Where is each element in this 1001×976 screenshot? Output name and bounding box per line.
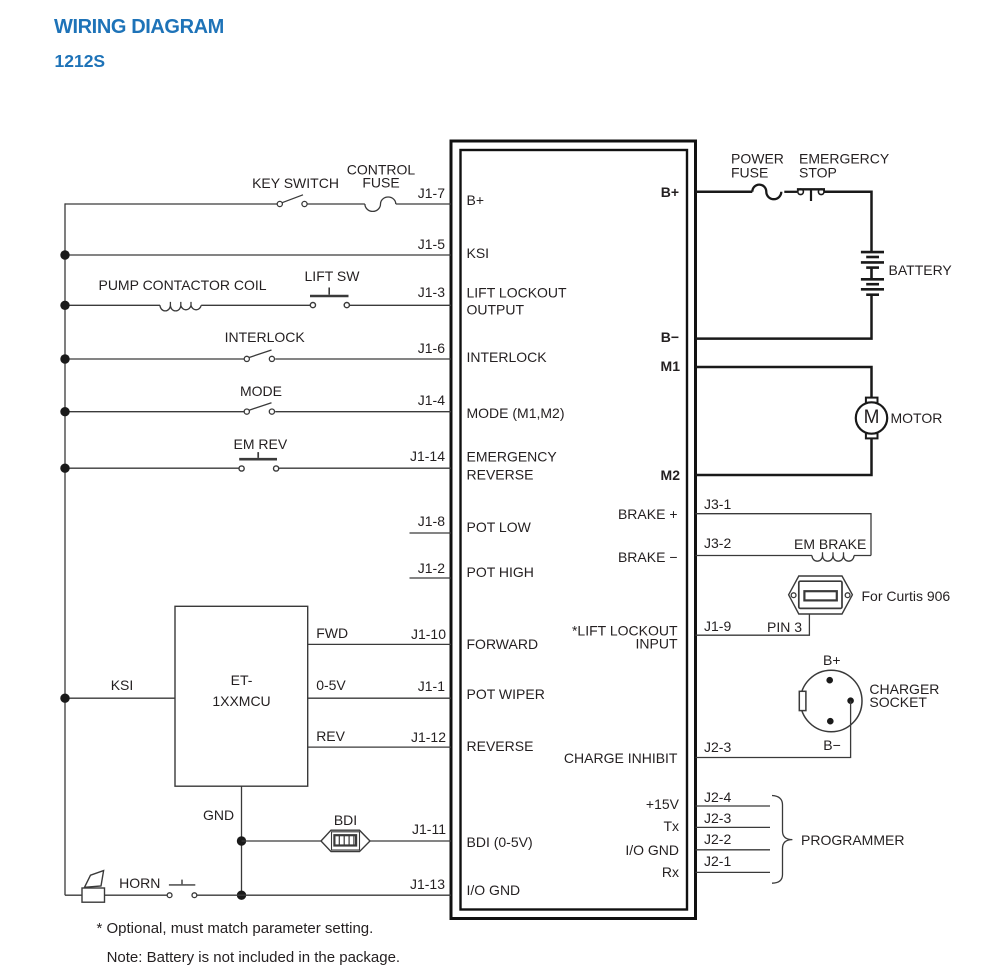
motor M — [856, 398, 887, 439]
power fuse — [752, 185, 781, 200]
footnote battery note — [107, 951, 401, 965]
wire J2-3 / CHARGE INHIBIT : charger pin to box — [696, 701, 851, 758]
battery — [861, 252, 884, 295]
pin label J1-11 — [412, 822, 446, 836]
charger label B- — [823, 738, 841, 752]
pin label J1-9 — [704, 619, 731, 633]
horn — [82, 871, 105, 903]
wire: horn pushbutton to J1-13 — [197, 894, 451, 896]
wire J1-7 row: bus to key switch — [65, 203, 277, 205]
charger socket — [799, 670, 862, 732]
box label BRAKE - — [618, 550, 678, 564]
label POWER FUSE — [731, 151, 784, 180]
lift switch SW (pushbutton) — [310, 288, 349, 308]
wire: power fuse to emergency stop — [784, 191, 797, 193]
wire J2-3 programmer — [696, 826, 771, 828]
wire J3-2 / BRAKE- : box to em brake coil — [696, 555, 813, 557]
junction dot bus/J1-3 — [60, 301, 69, 310]
BDI meter symbol — [321, 830, 370, 851]
wire: interlock switch to J1-6 — [275, 358, 451, 360]
pin label J3-1 — [704, 497, 731, 511]
wire: lift switch to J1-3 — [350, 304, 452, 306]
pin label J2-3 — [704, 740, 731, 754]
horn pushbutton — [167, 880, 197, 898]
box label M1 (bold) — [661, 359, 680, 373]
label HORN — [119, 876, 160, 890]
pin label J1-10 — [411, 627, 446, 641]
wire GND vertical from throttle box — [241, 786, 243, 895]
box label MODE (M1,M2) — [467, 406, 565, 420]
wire REV to J1-12 — [308, 746, 451, 748]
wire: mode switch to J1-4 — [275, 411, 451, 413]
interlock switch — [244, 350, 274, 362]
box label M2 (bold) — [661, 468, 680, 482]
label EM REV — [234, 437, 288, 451]
pin label J3-2 — [704, 536, 731, 550]
charger socket pin center — [847, 697, 854, 704]
throttle label ET-1XXMCU — [212, 670, 270, 712]
wire KSI: bus to throttle box — [65, 697, 175, 699]
wire M1 : box to motor top — [696, 367, 872, 398]
label PROGRAMMER — [801, 833, 904, 847]
subtitle 1212S — [55, 54, 106, 68]
pin label J2-2 (programmer) — [704, 832, 731, 846]
box label POT LOW — [467, 520, 531, 534]
box label KSI — [467, 246, 490, 260]
box label I/O GND (left) — [467, 883, 521, 897]
box label Tx — [663, 819, 679, 833]
left vertical bus wire — [64, 203, 66, 895]
label INTERLOCK — [225, 330, 305, 344]
label GND — [203, 808, 234, 822]
wire J1-3 row: bus to pump contactor coil — [65, 304, 160, 306]
wire: key switch to control fuse — [307, 203, 365, 205]
em brake coil — [812, 552, 854, 561]
wire J2-1 programmer — [696, 871, 771, 873]
label BDI — [334, 813, 357, 827]
wire J2-4 programmer — [696, 805, 771, 807]
junction dot bus/J1-4 — [60, 407, 69, 416]
box label B+ (left) — [467, 193, 485, 207]
box label CHARGE INHIBIT — [564, 751, 678, 765]
wire 0-5V to J1-1 — [308, 697, 451, 699]
label CHARGER SOCKET — [869, 683, 939, 709]
key switch — [277, 195, 307, 207]
wire J1-4 row: bus to mode switch — [65, 411, 245, 413]
wire J1-5 row: bus to J1-5 — [65, 254, 451, 256]
charger socket pin B- — [827, 718, 834, 725]
box label B+ (right, bold) — [661, 185, 679, 199]
box label Rx — [662, 865, 679, 879]
label FWD — [316, 626, 348, 640]
label For Curtis 906 — [862, 589, 951, 603]
junction dot bus/KSI — [60, 694, 69, 703]
wire M2 : motor bottom to box — [696, 438, 872, 475]
label KEY SWITCH — [252, 176, 339, 190]
box label POT WIPER — [467, 687, 545, 701]
pin label J1-14 — [410, 449, 445, 463]
pin label J2-4 (programmer) — [704, 790, 731, 804]
box label *LIFT LOCKOUT INPUT — [572, 624, 678, 651]
emergency stop pushbutton — [797, 189, 825, 201]
pin label J1-12 — [411, 730, 446, 744]
charger socket pin B+ — [826, 677, 833, 684]
wire stub J1-2 — [410, 577, 452, 579]
wire: EM REV pushbutton to J1-14 — [279, 467, 451, 469]
pin label J1-2 — [418, 561, 445, 575]
controller outer box U1 — [451, 141, 696, 919]
wire: BDI meter to J1-11 — [370, 840, 451, 842]
box label INTERLOCK — [467, 350, 547, 364]
wire: em brake coil to corner — [854, 555, 871, 557]
wire J1-14 row: bus to EM REV pushbutton — [65, 467, 239, 469]
pin label J2-1 (programmer) — [704, 854, 731, 868]
wire: bus corner to horn — [65, 894, 82, 896]
junction dot GND/J1-13 wire — [237, 891, 246, 900]
box label FORWARD — [467, 637, 539, 651]
label CONTROL FUSE — [347, 163, 415, 190]
label PIN 3 — [767, 620, 802, 634]
mode switch — [244, 403, 274, 415]
wire J2-2 programmer — [696, 849, 771, 851]
wire B- : battery bottom to box — [696, 295, 872, 339]
pin label J1-6 — [418, 341, 445, 355]
pin label J1-13 — [410, 877, 445, 891]
box label BDI (0-5V) — [467, 835, 533, 849]
box label +15V — [646, 797, 679, 811]
footnote optional — [97, 922, 374, 936]
wire J3-1 / BRAKE+ : box to em brake — [696, 514, 872, 556]
wire: GND to BDI meter — [242, 840, 322, 842]
box label LIFT LOCKOUT OUTPUT — [467, 285, 567, 318]
charger label B+ — [823, 653, 841, 667]
controller inner box — [461, 150, 688, 910]
wire J1-6 row: bus to interlock switch — [65, 358, 245, 360]
pin label J1-8 — [418, 514, 445, 528]
box label POT HIGH — [467, 565, 534, 579]
label BATTERY — [889, 263, 952, 277]
pin label J1-1 — [418, 679, 445, 693]
label PUMP CONTACTOR COIL — [98, 278, 266, 292]
label MODE — [240, 384, 282, 398]
label REV — [316, 729, 345, 743]
junction dot bus/J1-6 — [60, 354, 69, 363]
Curtis 906 gauge connector — [789, 576, 853, 614]
label MOTOR — [891, 411, 943, 425]
label EMERGERCY STOP — [799, 151, 889, 180]
box label EMERGENCY REVERSE — [467, 447, 557, 484]
junction dot GND/BDI wire — [237, 836, 246, 845]
label LIFT SW — [305, 269, 360, 283]
label 0-5V — [316, 678, 346, 692]
box label I/O GND (right) — [625, 843, 679, 857]
label KSI (left) — [111, 678, 134, 692]
wire: emergency stop to battery top — [824, 192, 872, 252]
pin label J1-3 — [418, 285, 445, 299]
pump contactor coil L1 — [160, 302, 201, 311]
wire: coil to lift switch — [201, 304, 310, 306]
pin label J1-7 — [418, 186, 445, 200]
wire: horn to horn pushbutton — [105, 894, 168, 896]
wire stub J1-8 — [410, 532, 452, 534]
pin label J2-3 (programmer) — [704, 811, 731, 825]
title WIRING DIAGRAM — [54, 20, 224, 34]
junction dot bus/J1-14 — [60, 464, 69, 473]
motor letter M — [864, 411, 880, 425]
EM REV pushbutton — [239, 452, 279, 471]
pin label J1-4 — [418, 393, 445, 407]
throttle box ET-1XXMCU — [175, 606, 308, 786]
wire B+ : box to power fuse — [696, 191, 753, 194]
box label REVERSE — [467, 739, 534, 753]
programmer brace — [772, 796, 792, 884]
box label B- (right, bold) — [661, 330, 679, 344]
box label BRAKE + — [618, 507, 678, 521]
junction dot bus/J1-5 — [60, 250, 69, 259]
control fuse — [365, 197, 396, 211]
wire FWD to J1-10 — [308, 643, 451, 645]
wire J1-9 / PIN 3 : box to connector — [696, 615, 810, 636]
label EM BRAKE — [794, 537, 866, 551]
pin label J1-5 — [418, 237, 445, 251]
wire: control fuse to J1-7 — [396, 203, 451, 205]
